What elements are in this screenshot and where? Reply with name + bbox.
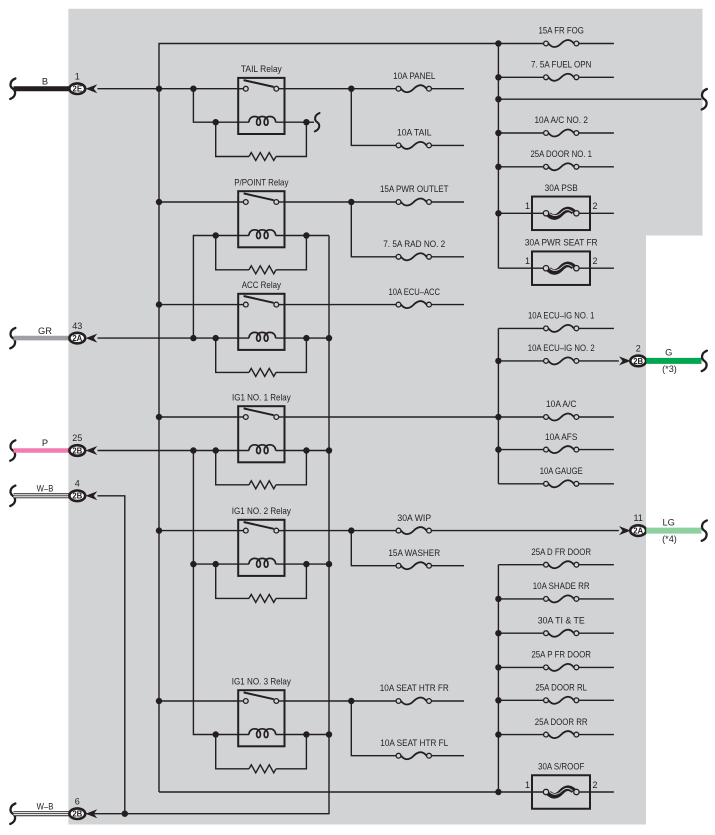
- svg-text:10A A/C NO. 2: 10A A/C NO. 2: [534, 115, 588, 125]
- svg-text:2B: 2B: [72, 810, 82, 819]
- node junction ACC coil return on ground bus: [326, 335, 332, 341]
- svg-text:2B: 2B: [72, 492, 82, 501]
- wire B feed to TAIL relay switch: [98, 88, 239, 90]
- fuse 10A ECU–IG NO. 1: [498, 311, 614, 332]
- wire W-B pin4 drop to bottom wire: [98, 496, 125, 814]
- wire branch down to 10A TAIL fuse: [351, 89, 396, 146]
- node junction bus / 25A DOOR NO.1: [495, 164, 501, 170]
- resistor (coil shunt) of TAIL Relay: [213, 119, 310, 161]
- wire main bus to IG1 NO.1 relay switch: [159, 416, 238, 418]
- svg-text:1: 1: [525, 780, 530, 790]
- wire W-B pin6 lead: [85, 813, 124, 815]
- resistor (coil shunt) of ACC Relay: [213, 335, 310, 377]
- svg-text:IG1 NO. 2 Relay: IG1 NO. 2 Relay: [232, 506, 292, 516]
- svg-text:11: 11: [634, 513, 643, 523]
- svg-text:10A ECU–IG NO. 1: 10A ECU–IG NO. 1: [528, 311, 594, 321]
- wire P/POINT switch output to 15A PWR OUTLET: [285, 201, 396, 203]
- svg-text:2B: 2B: [633, 357, 643, 366]
- node junction IG1 NO.2 coil feed on riser: [190, 561, 196, 567]
- fuse 25A DOOR NO. 1: [498, 149, 614, 170]
- wire P/POINT coil feed riser down to GR wire: [193, 236, 215, 339]
- wire main power bus from B terminal (vertical, left): [159, 44, 498, 793]
- svg-text:30A PSB: 30A PSB: [545, 183, 578, 193]
- node junction right door-bus / S-ROOF wire: [495, 789, 501, 795]
- node junction main bus / IG1 NO.2 switch: [156, 527, 162, 533]
- svg-text:P: P: [42, 438, 48, 448]
- node junction W-B bottom wire / pin4 drop: [122, 811, 128, 817]
- svg-text:10A PANEL: 10A PANEL: [393, 71, 435, 81]
- wire main bus to P/POINT relay switch: [159, 201, 238, 203]
- svg-text:TAIL Relay: TAIL Relay: [241, 64, 282, 74]
- node junction 7.5A RAD NO.2 branch: [348, 199, 354, 205]
- svg-text:10A A/C: 10A A/C: [546, 399, 577, 409]
- svg-text:1: 1: [525, 256, 530, 266]
- fuse 25A DOOR RL: [498, 683, 614, 704]
- fuse 10A A/C NO. 2: [498, 115, 614, 136]
- svg-text:W–B: W–B: [37, 484, 54, 494]
- svg-text:10A SHADE RR: 10A SHADE RR: [533, 581, 590, 591]
- fuse 25A DOOR RR: [498, 717, 614, 738]
- node junction main bus / IG1 NO.1 switch: [156, 414, 162, 420]
- fusible link 30A PWR SEAT FR: [498, 238, 614, 285]
- continuation mark right edge feed: [702, 89, 707, 109]
- svg-text:LG: LG: [662, 517, 674, 527]
- svg-text:P/POINT Relay: P/POINT Relay: [234, 177, 288, 187]
- connector terminal 2B pin 2 wire G (right): [619, 343, 707, 374]
- relay IG1 NO. 1 Relay: [216, 392, 307, 462]
- wire main bus to ACC relay switch: [159, 304, 238, 306]
- svg-text:25A DOOR NO. 1: 25A DOOR NO. 1: [530, 149, 592, 159]
- wire main bus to IG1 NO.3 relay switch: [159, 700, 238, 702]
- svg-text:B: B: [42, 76, 48, 86]
- node junction main bus / P-POINT switch: [156, 199, 162, 205]
- connector terminal 2A pin 11 wire LG (right): [619, 513, 707, 544]
- svg-text:2: 2: [592, 256, 597, 266]
- node junction 10A TAIL branch: [348, 86, 354, 92]
- svg-text:7. 5A RAD NO. 2: 7. 5A RAD NO. 2: [383, 239, 445, 249]
- wire branch down to 10A SEAT HTR FL fuse: [351, 701, 396, 756]
- wire GR feed to ACC relay coil: [98, 337, 216, 339]
- fuse 10A SEAT HTR FR: [380, 683, 464, 704]
- wire coil ground-return bus (vertical): [125, 236, 329, 814]
- svg-text:25A DOOR RR: 25A DOOR RR: [535, 717, 588, 727]
- node junction bus / 10A A/C NO.2: [495, 130, 501, 136]
- node junction bus / 30A PSB: [495, 210, 501, 216]
- node junction IG1 NO.3 coil return on ground bus: [326, 731, 332, 737]
- node junction riser on B feed wire: [190, 86, 196, 92]
- wire right fuse bus group 3: [497, 565, 499, 792]
- node junction IG1 NO.2 coil return on ground bus: [326, 561, 332, 567]
- svg-text:25: 25: [72, 433, 82, 443]
- svg-text:2A: 2A: [72, 334, 82, 343]
- wire ACC coil return to ground bus: [306, 337, 329, 339]
- node junction bus / 30A TI-TE: [495, 630, 501, 636]
- svg-text:2: 2: [592, 201, 597, 211]
- connector terminal 2E pin 1 wire B (left): [10, 71, 97, 99]
- relay ACC Relay: [216, 280, 307, 350]
- svg-text:15A FR FOG: 15A FR FOG: [539, 26, 584, 36]
- wire feed to right edge continuation: [498, 98, 701, 100]
- svg-text:6: 6: [75, 796, 80, 806]
- node junction bus / edge feed wire: [495, 96, 501, 102]
- wire IG1 NO.1 coil return to ground bus: [306, 450, 329, 452]
- svg-text:30A WIP: 30A WIP: [397, 513, 431, 523]
- node junction bus / ECU-IG NO.2: [495, 358, 501, 364]
- wire IG1 NO.1 switch output to right fuse bus: [285, 416, 499, 418]
- svg-text:10A AFS: 10A AFS: [545, 432, 577, 442]
- wire IG1 coil feed riser down to IG1 NO.3: [193, 451, 215, 735]
- svg-text:2: 2: [636, 343, 641, 353]
- node junction 15A WASHER branch: [348, 527, 354, 533]
- svg-text:2E: 2E: [73, 85, 83, 94]
- relay TAIL Relay: [216, 64, 307, 134]
- resistor (coil shunt) of IG1 NO. 1 Relay: [213, 447, 310, 489]
- svg-text:2: 2: [592, 780, 597, 790]
- svg-text:1: 1: [525, 201, 530, 211]
- svg-text:15A PWR OUTLET: 15A PWR OUTLET: [380, 184, 449, 194]
- wire IG1 NO.2 switch output through 30A WIP to 2A terminal: [285, 530, 396, 532]
- svg-text:25A P FR DOOR: 25A P FR DOOR: [531, 650, 591, 660]
- fuse 25A D FR DOOR: [498, 547, 614, 568]
- node junction bus / 10A SHADE RR: [495, 596, 501, 602]
- svg-text:10A ECU–IG NO. 2: 10A ECU–IG NO. 2: [528, 343, 595, 353]
- svg-text:2A: 2A: [633, 527, 643, 536]
- fuse 15A WASHER: [388, 548, 464, 569]
- wire IG1 NO.3 switch output to 10A SEAT HTR FR: [285, 700, 396, 702]
- wire IG1 NO.2 coil return to ground bus: [306, 563, 329, 565]
- svg-text:30A TI & TE: 30A TI & TE: [538, 615, 585, 625]
- wire ACC switch output to 10A ECU-ACC fuse: [285, 304, 396, 306]
- svg-text:(*3): (*3): [662, 364, 677, 374]
- resistor (coil shunt) of IG1 NO. 2 Relay: [213, 561, 310, 603]
- node junction main bus / IG1 NO.3 switch: [156, 698, 162, 704]
- svg-text:30A PWR SEAT FR: 30A PWR SEAT FR: [525, 238, 598, 248]
- node junction P wire / IG1 coil riser: [190, 447, 196, 453]
- svg-text:4: 4: [75, 479, 80, 489]
- wire TAIL relay switch output to 10A PANEL: [285, 88, 396, 90]
- relay P/POINT Relay: [216, 177, 307, 247]
- node junction 10A SEAT HTR FL branch: [348, 698, 354, 704]
- wire P feed to IG1 NO.1 relay coil: [98, 450, 216, 452]
- fuse 10A PANEL: [393, 71, 464, 92]
- svg-text:10A SEAT HTR FL: 10A SEAT HTR FL: [380, 738, 448, 748]
- continuation mark TAIL coil return: [315, 113, 320, 131]
- node junction IG1 NO.1 coil return on ground bus: [326, 447, 332, 453]
- fuse 30A TI & TE: [498, 615, 614, 636]
- fuse 7. 5A RAD NO. 2: [383, 239, 464, 260]
- fuse 10A ECU–IG NO. 2: [498, 343, 618, 364]
- wire main bus bottom elbow to 30A S/ROOF: [159, 791, 543, 793]
- svg-text:10A TAIL: 10A TAIL: [397, 128, 432, 138]
- wire right fuse bus group 2: [497, 328, 499, 483]
- svg-text:25A DOOR RL: 25A DOOR RL: [535, 683, 587, 693]
- wire TAIL coil return to continuation: [306, 121, 314, 123]
- relay IG1 NO. 3 Relay: [216, 676, 307, 746]
- svg-text:W–B: W–B: [37, 801, 54, 811]
- node junction bus / 25A DOOR RR: [495, 731, 501, 737]
- fuse 10A GAUGE: [498, 466, 614, 487]
- svg-text:10A GAUGE: 10A GAUGE: [540, 466, 583, 476]
- fuse 10A TAIL: [396, 128, 464, 149]
- svg-text:1: 1: [75, 71, 80, 81]
- fuse 30A WIP: [396, 513, 431, 534]
- wire right fuse bus group 1: [497, 44, 499, 269]
- svg-text:GR: GR: [38, 326, 52, 336]
- wire riser to IG1 NO.2 coil: [193, 563, 215, 565]
- relay IG1 NO. 2 Relay: [216, 506, 307, 576]
- wire branch down to 15A WASHER fuse: [351, 531, 396, 566]
- fuse 7. 5A FUEL OPN: [498, 60, 614, 81]
- node junction bus / 25A DOOR RL: [495, 697, 501, 703]
- svg-text:10A SEAT HTR FR: 10A SEAT HTR FR: [380, 683, 449, 693]
- wire TAIL relay coil feed riser: [193, 89, 215, 123]
- node junction main bus / ACC switch: [156, 301, 162, 307]
- fuse 15A FR FOG: [498, 26, 614, 47]
- node junction bus / 25A P FR DOOR: [495, 664, 501, 670]
- wire branch down to 7.5A RAD NO.2 fuse: [351, 202, 396, 257]
- connector terminal 2A pin 43 wire GR (left): [10, 321, 97, 349]
- node junction bus / 10A A/C feed: [495, 414, 501, 420]
- node junction GR wire / P-POINT riser: [190, 335, 196, 341]
- connector terminal 2B pin 25 wire P (left): [10, 433, 97, 461]
- fuse 10A SEAT HTR FL: [380, 738, 464, 759]
- wire main bus to IG1 NO.2 relay switch: [159, 530, 238, 532]
- svg-text:G: G: [665, 348, 672, 358]
- svg-text:30A S/ROOF: 30A S/ROOF: [538, 762, 585, 772]
- svg-text:ACC Relay: ACC Relay: [242, 280, 281, 290]
- node junction bus / 7.5A FUEL OPN: [495, 74, 501, 80]
- connector terminal 2B pin 6 wire W–B (left): [10, 796, 97, 824]
- svg-text:15A WASHER: 15A WASHER: [388, 548, 440, 558]
- fuse 25A P FR DOOR: [498, 650, 614, 671]
- node junction right bus top: [495, 40, 501, 46]
- node junction bus / 10A AFS: [495, 446, 501, 452]
- fusible link 30A S/ROOF: [525, 762, 614, 809]
- svg-text:43: 43: [72, 321, 82, 331]
- fusible link 30A PSB: [498, 183, 614, 230]
- resistor (coil shunt) of IG1 NO. 3 Relay: [213, 731, 310, 773]
- fuse 10A A/C: [498, 399, 614, 420]
- resistor (coil shunt) of P/POINT Relay: [213, 232, 310, 273]
- wire P/POINT coil return to ground bus: [306, 235, 329, 237]
- svg-text:IG1 NO. 3 Relay: IG1 NO. 3 Relay: [232, 676, 292, 686]
- svg-text:7. 5A FUEL OPN: 7. 5A FUEL OPN: [531, 60, 591, 70]
- fuse 10A AFS: [498, 432, 614, 453]
- svg-text:25A D FR DOOR: 25A D FR DOOR: [531, 547, 591, 557]
- fuse 10A ECU–ACC: [389, 287, 465, 308]
- svg-text:IG1 NO. 1 Relay: IG1 NO. 1 Relay: [232, 392, 291, 402]
- fuse 15A PWR OUTLET: [380, 184, 464, 205]
- wire IG1 NO.3 coil return to ground bus: [306, 734, 329, 736]
- svg-text:10A ECU–ACC: 10A ECU–ACC: [389, 287, 441, 297]
- svg-text:(*4): (*4): [662, 534, 677, 544]
- fuse 10A SHADE RR: [498, 581, 614, 602]
- connector terminal 2B pin 4 wire W–B (left): [10, 479, 97, 507]
- svg-text:2B: 2B: [72, 446, 82, 455]
- node junction main bus / TAIL switch feed: [156, 86, 162, 92]
